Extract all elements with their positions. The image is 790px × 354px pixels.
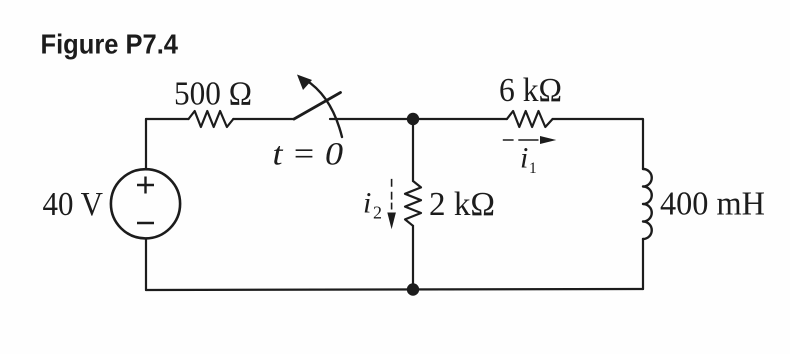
resistor R 2k vertical zigzag xyxy=(405,181,421,226)
current arrow i1 head xyxy=(540,136,556,144)
svg-text:t = 0: t = 0 xyxy=(273,137,344,173)
wire inductor to bottom-right corner xyxy=(642,239,644,289)
wire top-left segment xyxy=(146,118,189,120)
svg-text:2 kΩ: 2 kΩ xyxy=(429,186,495,223)
voltage source minus sign xyxy=(137,222,154,224)
svg-text:Figure P7.4: Figure P7.4 xyxy=(41,29,179,60)
wire middle branch lower xyxy=(412,226,414,289)
svg-text:i: i xyxy=(520,142,528,175)
wire middle branch upper xyxy=(412,119,414,181)
wire bottom xyxy=(146,289,643,290)
resistor R 500ohm zigzag xyxy=(189,111,234,127)
wire resistor to switch xyxy=(233,118,294,120)
svg-text:6 kΩ: 6 kΩ xyxy=(499,72,562,109)
inductor L 400mH xyxy=(643,169,652,239)
wire 6k to top-right corner and down xyxy=(553,119,643,169)
svg-text:1: 1 xyxy=(529,160,537,177)
current arrow i1 dashed shaft xyxy=(503,139,539,141)
resistor R 6k zigzag xyxy=(507,111,553,127)
svg-text:2: 2 xyxy=(373,203,382,223)
node b bottom junction dot xyxy=(407,283,419,295)
svg-text:500 Ω: 500 Ω xyxy=(174,76,252,113)
wire left vertical (source branch) xyxy=(145,119,147,290)
wire switch to node a xyxy=(330,118,407,120)
switch arc arrowhead xyxy=(297,75,312,91)
current arrow i2 head xyxy=(387,213,396,230)
voltage source plus sign xyxy=(137,177,154,194)
svg-text:400 mH: 400 mH xyxy=(660,186,765,223)
svg-text:i: i xyxy=(363,187,371,220)
switch blade xyxy=(294,93,341,120)
svg-text:40 V: 40 V xyxy=(43,186,104,223)
wire node a to 6k resistor xyxy=(419,118,507,120)
node a top junction dot xyxy=(407,113,419,125)
current arrow i2 dashed shaft xyxy=(391,179,393,210)
switch motion arc xyxy=(305,80,342,138)
voltage source V 40V circle xyxy=(111,169,180,238)
